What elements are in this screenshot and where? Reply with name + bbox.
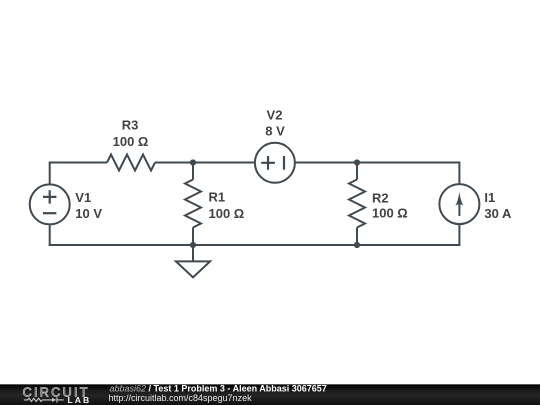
node dot top-right (R2/top rail junction) bbox=[354, 159, 360, 165]
resistor R1 body (zigzag) bbox=[185, 180, 201, 228]
I1 arrow head bbox=[455, 192, 463, 206]
resistor R2 body (zigzag) bbox=[349, 180, 365, 228]
wire R3 to V2 bbox=[155, 162, 255, 164]
svg-text:V2: V2 bbox=[267, 107, 283, 122]
wire R1 top stub bbox=[192, 162, 194, 180]
V1 plus sign bbox=[43, 190, 56, 203]
ground triangle bbox=[176, 261, 210, 277]
svg-text:100 Ω: 100 Ω bbox=[113, 134, 149, 149]
wire bottom rail bbox=[49, 244, 460, 246]
svg-text:LAB: LAB bbox=[68, 395, 92, 405]
CircuitLab logo wordmark CIRCUIT bbox=[23, 385, 90, 399]
svg-text:R3: R3 bbox=[122, 118, 139, 133]
voltage source V2 circle bbox=[255, 143, 295, 183]
node dot bottom-left (R1/bottom rail junction) bbox=[190, 242, 196, 248]
wire right vertical bottom from I1 bbox=[458, 224, 460, 246]
footer bar background bbox=[0, 384, 540, 405]
wire right vertical top to I1 bbox=[458, 162, 460, 185]
footer line 1: user / title bbox=[110, 383, 327, 393]
svg-text:30 A: 30 A bbox=[484, 206, 512, 221]
ground stem bbox=[192, 245, 194, 261]
svg-text:R2: R2 bbox=[372, 190, 389, 205]
V2 plus sign bbox=[261, 156, 275, 170]
CircuitLab logo schematic squiggle: wire + resistor + diode bbox=[24, 397, 64, 402]
current source I1 circle bbox=[439, 184, 479, 224]
wire top-left vertical from V1 to top rail bbox=[49, 163, 51, 184]
svg-text:abbasi62 / Test 1 Problem 3 -: abbasi62 / Test 1 Problem 3 - Aleen Abba… bbox=[110, 383, 327, 393]
wire R2 bottom stub bbox=[356, 228, 358, 247]
svg-text:100 Ω: 100 Ω bbox=[372, 206, 408, 221]
wire R2 top stub bbox=[356, 162, 358, 180]
CircuitLab logo wordmark LAB bbox=[68, 395, 92, 405]
svg-text:8 V: 8 V bbox=[265, 124, 285, 139]
wire bottom-left vertical from V1 bbox=[49, 225, 51, 246]
footer line 2: url bbox=[109, 393, 253, 403]
svg-text:V1: V1 bbox=[75, 190, 91, 205]
resistor R3 body (zigzag) bbox=[107, 155, 155, 171]
V2 minus bar bbox=[283, 156, 285, 170]
V1 minus bar bbox=[43, 212, 56, 214]
wire top rail from V1 corner to R3 bbox=[49, 162, 107, 164]
svg-text:I1: I1 bbox=[484, 190, 495, 205]
wire R1 bottom stub bbox=[192, 228, 194, 247]
CircuitLab logo diode triangle bbox=[52, 398, 56, 402]
svg-text:http://circuitlab.com/c84spegu: http://circuitlab.com/c84spegu7nzek bbox=[109, 393, 253, 403]
svg-text:100 Ω: 100 Ω bbox=[209, 206, 245, 221]
svg-text:R1: R1 bbox=[209, 189, 226, 204]
voltage source V1 circle bbox=[30, 184, 70, 224]
wire V2 to top-right corner bbox=[295, 162, 460, 164]
node dot top-left (R1/top rail junction) bbox=[190, 159, 196, 165]
I1 arrow shaft bbox=[458, 201, 460, 216]
node dot bottom-right (R2/bottom rail junction) bbox=[354, 242, 360, 248]
svg-text:10 V: 10 V bbox=[75, 206, 102, 221]
